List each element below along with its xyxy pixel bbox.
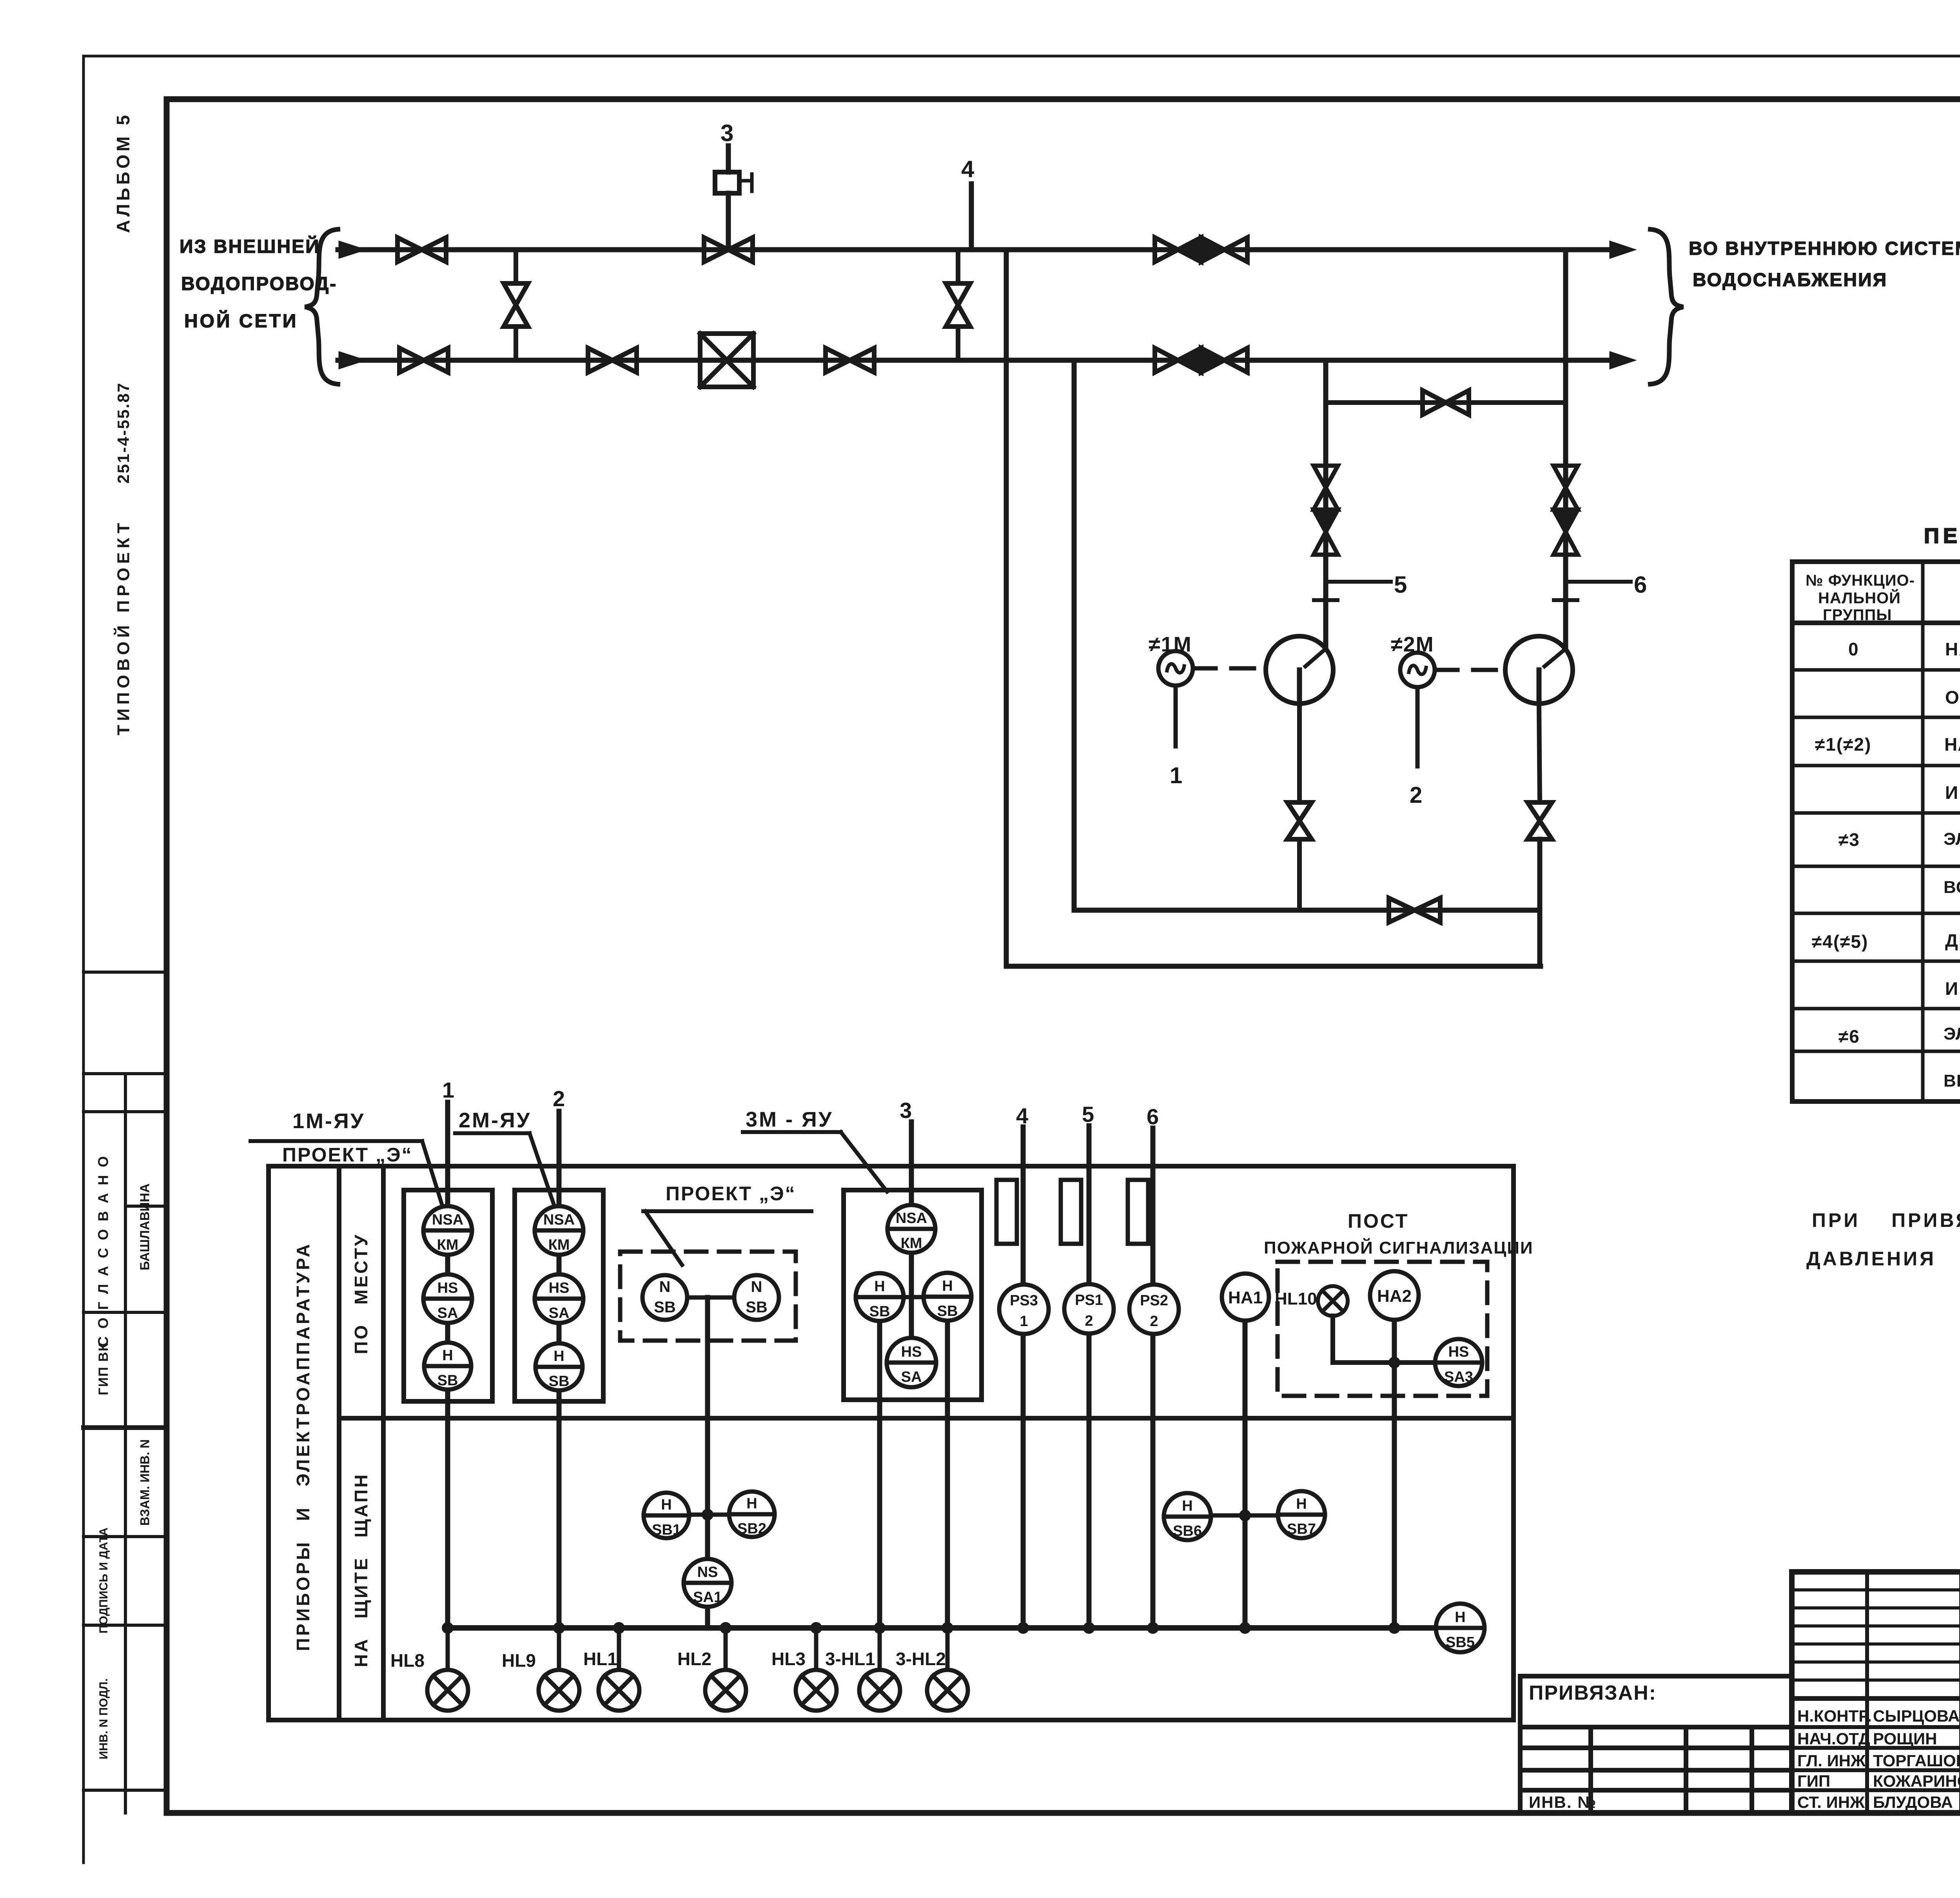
- button H/SB2: [729, 1492, 775, 1537]
- svg-text:1: 1: [1170, 763, 1182, 788]
- suction manifold riser from bottom pipe: [1072, 360, 1077, 910]
- dashed fire post box: [1278, 1262, 1487, 1396]
- valve on middle suction header: [1389, 898, 1440, 922]
- stub 4 on top pipe: [961, 156, 975, 250]
- wire HA1: [1243, 1321, 1248, 1628]
- svg-text:КМ: КМ: [548, 1237, 570, 1253]
- svg-text:≠6: ≠6: [1838, 1026, 1860, 1047]
- connector SB1-SB2: [689, 1513, 729, 1517]
- leader label 2М-ЯУ: [455, 1109, 554, 1206]
- motor of pump 1M: [1149, 633, 1266, 788]
- svg-text:НА2: НА2: [1377, 1287, 1412, 1306]
- svg-text:ИНДИВИДУАЛЬНЫЕ ЦЕПИ: ИНДИВИДУАЛЬНЫЕ ЦЕПИ: [1945, 978, 1960, 999]
- svg-text:1: 1: [1020, 1313, 1028, 1330]
- button N/SB left: [642, 1275, 687, 1320]
- svg-text:HS: HS: [1448, 1344, 1469, 1360]
- label Пост пожарной сигнализации: [1264, 1210, 1534, 1257]
- svg-text:С О Г Л А С О В А Н О: С О Г Л А С О В А Н О: [95, 1154, 111, 1347]
- water meter: [700, 334, 753, 387]
- switch NS/SA1: [684, 1559, 731, 1607]
- svg-text:Н: Н: [1455, 1609, 1465, 1626]
- svg-text:ПРИВЯЗАН:: ПРИВЯЗАН:: [1529, 1682, 1657, 1704]
- svg-text:ЭЛЕКТРОЗАДВИЖКА 6М НА КАНАЛ: ЭЛЕКТРОЗАДВИЖКА 6М НА КАНАЛИЗАЦИОННОМ: [1944, 1024, 1960, 1043]
- svg-text:3-HL2: 3-HL2: [896, 1649, 946, 1669]
- svg-text:PS1: PS1: [1075, 1292, 1103, 1308]
- table grid: [1792, 562, 1960, 1101]
- electro valve 3M on top pipe: [704, 120, 753, 262]
- svg-text:ВОДОПРОВОД-: ВОДОПРОВОД-: [181, 274, 337, 294]
- motor of pump 2M: [1391, 633, 1505, 808]
- title block label rows: [1792, 1698, 1960, 1790]
- group 2M cabinet: [515, 1190, 603, 1401]
- svg-text:ОБЩИЕ ЦЕПИ: ОБЩИЕ ЦЕПИ: [1945, 687, 1960, 708]
- instrument HS/SA pump1: [423, 1274, 472, 1323]
- lamp HL1: [583, 1628, 639, 1711]
- svg-text:3М - ЯУ: 3М - ЯУ: [746, 1108, 833, 1131]
- button H/SB 3M right: [924, 1273, 971, 1321]
- suction header bottom: [1006, 964, 1541, 969]
- group 3M cabinet: [844, 1190, 982, 1400]
- svg-text:ГИП ВК: ГИП ВК: [96, 1343, 111, 1395]
- svg-text:SB: SB: [746, 1299, 768, 1316]
- svg-text:HL1: HL1: [583, 1649, 617, 1669]
- svg-text:SB: SB: [869, 1303, 890, 1320]
- svg-text:2: 2: [1085, 1313, 1093, 1329]
- title block thin rows: [1792, 1590, 1960, 1680]
- svg-text:≠2М: ≠2М: [1391, 633, 1434, 656]
- svg-text:Н: Н: [942, 1278, 953, 1294]
- wire line 6: [1147, 1104, 1159, 1628]
- svg-text:SA: SA: [901, 1369, 922, 1385]
- svg-text:5: 5: [1394, 572, 1407, 598]
- pump 2M discharge riser: [1554, 250, 1647, 649]
- svg-text:3: 3: [900, 1098, 912, 1123]
- svg-text:SB: SB: [654, 1299, 676, 1316]
- svg-text:ВОДОСНАБЖЕНИЯ: ВОДОСНАБЖЕНИЯ: [1693, 270, 1887, 290]
- svg-text:ИЗ ВНЕШНЕЙ: ИЗ ВНЕШНЕЙ: [180, 236, 320, 257]
- instrument HS/SA pump2: [535, 1274, 583, 1323]
- terminal strip 6: [1128, 1180, 1148, 1244]
- svg-text:Н: Н: [554, 1348, 564, 1365]
- svg-text:ГРУППЫ: ГРУППЫ: [1823, 606, 1892, 624]
- svg-text:1: 1: [442, 1078, 454, 1102]
- instrument HS/SA 3M: [887, 1338, 936, 1387]
- svg-text:NSA: NSA: [896, 1210, 927, 1227]
- svg-text:НАЧ.ОТД: НАЧ.ОТД: [1797, 1729, 1870, 1748]
- svg-text:ПО МЕСТУ: ПО МЕСТУ: [351, 1233, 371, 1354]
- svg-text:НАЛЬНОЙ: НАЛЬНОЙ: [1818, 589, 1901, 607]
- svg-text:Н: Н: [1296, 1496, 1307, 1512]
- wire from H/SB 3M left: [877, 1320, 882, 1628]
- svg-text:ГИП: ГИП: [1797, 1772, 1830, 1790]
- svg-text:ДАВЛЕНИЯ ДЛЯ ПРИБОРА PS1,: ДАВЛЕНИЯ ДЛЯ ПРИБОРА PS1, PS2, PS3.: [1806, 1248, 1960, 1270]
- svg-text:Н.КОНТР.: Н.КОНТР.: [1797, 1707, 1872, 1725]
- instrument NSA/KM pump2: [535, 1206, 583, 1255]
- leader label 3М-ЯУ: [743, 1108, 887, 1192]
- svg-text:SB7: SB7: [1287, 1521, 1316, 1537]
- svg-text:Н: Н: [661, 1497, 671, 1513]
- button H/SB5: [1436, 1604, 1485, 1652]
- svg-text:3-HL1: 3-HL1: [825, 1649, 875, 1669]
- svg-text:КМ: КМ: [437, 1237, 459, 1253]
- cross valve between pipes left: [504, 250, 528, 360]
- pump 2M circle: [1505, 636, 1573, 704]
- svg-text:ПРОЕКТ „Э“: ПРОЕКТ „Э“: [282, 1144, 413, 1166]
- lamp 3-HL1: [825, 1628, 900, 1711]
- pump 1M suction with valve: [1287, 704, 1312, 910]
- svg-text:ВЫПУСКЕ ИЗ ПОДВАЛА. ИНДИВИДУ: ВЫПУСКЕ ИЗ ПОДВАЛА. ИНДИВИДУАЛЬНЫЕ ЦЕПИ: [1944, 1071, 1960, 1091]
- connector between H/SB of 3M: [899, 1295, 924, 1299]
- svg-text:НА1: НА1: [1228, 1288, 1263, 1307]
- title block signers: [1797, 1707, 1960, 1811]
- bus node dots: [442, 1622, 1400, 1634]
- right brace: [1650, 229, 1683, 384]
- svg-text:HL10: HL10: [1275, 1289, 1317, 1308]
- pump 1M discharge check+gate valves: [1314, 466, 1338, 555]
- svg-text:ПРИ ПРИВЯЗКЕ ПРОЕКТА ПРОСТА: ПРИ ПРИВЯЗКЕ ПРОЕКТА ПРОСТАВИТЬ ВЕЛИЧИНУ: [1812, 1209, 1960, 1231]
- wire line 2: [553, 1086, 565, 1628]
- svg-text:НАСОСЫ ПРОТИВОПОЖАРНЫЕ: НАСОСЫ ПРОТИВОПОЖАРНЫЕ: [1945, 639, 1960, 659]
- svg-text:0: 0: [1848, 639, 1859, 659]
- svg-text:№ ФУНКЦИО-: № ФУНКЦИО-: [1806, 572, 1915, 589]
- svg-text:2: 2: [553, 1086, 565, 1111]
- svg-text:ИНВ. N ПОДЛ.: ИНВ. N ПОДЛ.: [97, 1678, 110, 1760]
- svg-text:ПЕРЕЧЕНЬ ФУНКЦИОНАЛЬНЫХ ГРУП: ПЕРЕЧЕНЬ ФУНКЦИОНАЛЬНЫХ ГРУПП: [1924, 524, 1960, 548]
- svg-text:КОЖАРИНОВА: КОЖАРИНОВА: [1873, 1772, 1960, 1790]
- terminal strip 4: [996, 1180, 1017, 1244]
- svg-text:1М-ЯУ: 1М-ЯУ: [292, 1109, 365, 1133]
- pump 2M discharge check+gate valves: [1553, 466, 1578, 555]
- svg-text:НА ЩИТЕ ЩАПН: НА ЩИТЕ ЩАПН: [351, 1473, 371, 1668]
- wire line 3: [900, 1098, 912, 1363]
- title block columns left: [1867, 1572, 1960, 1813]
- svg-text:СТ. ИНЖ.: СТ. ИНЖ.: [1797, 1793, 1869, 1811]
- svg-text:4: 4: [961, 156, 975, 182]
- twin gate valve on bottom pipe: [1155, 348, 1247, 372]
- svg-text:ТИПОВОЙ ПРОЕКТ: ТИПОВОЙ ПРОЕКТ: [113, 519, 133, 735]
- label: Из внешней водопроводной сети: [180, 236, 337, 332]
- terminal strip 5: [1061, 1180, 1081, 1244]
- svg-text:АЛЬБОМ 5: АЛЬБОМ 5: [113, 112, 133, 233]
- svg-text:HL3: HL3: [771, 1649, 806, 1669]
- svg-text:Н: Н: [1182, 1498, 1192, 1514]
- svg-text:HL8: HL8: [390, 1650, 425, 1671]
- valve V2 on bottom pipe: [399, 348, 448, 372]
- valve V1 on top pipe: [397, 238, 446, 262]
- common bus: [448, 1625, 1436, 1631]
- node dot HA2/SA3: [1388, 1357, 1400, 1368]
- button H/SB1: [644, 1493, 689, 1538]
- svg-text:HL2: HL2: [677, 1649, 711, 1669]
- svg-text:ПОЖАРНОЙ СИГНАЛИЗАЦИИ: ПОЖАРНОЙ СИГНАЛИЗАЦИИ: [1264, 1238, 1534, 1257]
- svg-text:≠1(≠2): ≠1(≠2): [1815, 734, 1871, 755]
- svg-text:БЛУДОВА: БЛУДОВА: [1873, 1793, 1953, 1811]
- cross valve between pipes right: [946, 250, 970, 360]
- svg-text:ПОДПИСЬ И ДАТА: ПОДПИСЬ И ДАТА: [97, 1528, 110, 1633]
- svg-text:ВОДОМЕРНОГО УЗЛА. ИНДИВИДУАЛ: ВОДОМЕРНОГО УЗЛА. ИНДИВИДУАЛЬНЫЕ ЦЕПИ: [1944, 878, 1960, 897]
- lamp HL3: [771, 1628, 837, 1711]
- suction header middle: [1074, 908, 1540, 913]
- svg-text:5: 5: [1082, 1102, 1094, 1127]
- wire HA2: [1392, 1320, 1397, 1628]
- horn HA1: [1222, 1274, 1269, 1321]
- instrument H/SB pump2: [535, 1343, 583, 1390]
- svg-text:6: 6: [1634, 572, 1647, 598]
- instrument NSA/KM 3M: [887, 1205, 935, 1253]
- valve V3 on bottom pipe: [588, 348, 637, 372]
- switch HS/SA3: [1435, 1339, 1482, 1386]
- svg-text:≠3: ≠3: [1838, 829, 1860, 850]
- svg-text:SA1: SA1: [693, 1589, 722, 1606]
- svg-text:HS: HS: [901, 1344, 922, 1360]
- discharge bypass line: [1326, 390, 1566, 415]
- svg-text:ГЛ. ИНЖ.: ГЛ. ИНЖ.: [1797, 1751, 1870, 1770]
- svg-text:SB5: SB5: [1446, 1634, 1475, 1651]
- left brace: [305, 229, 338, 384]
- pipe: bottom main line: [338, 352, 1634, 368]
- svg-text:PS3: PS3: [1010, 1292, 1038, 1309]
- svg-text:ТОРГАШОВ: ТОРГАШОВ: [1873, 1751, 1960, 1770]
- svg-text:≠1М: ≠1М: [1149, 633, 1192, 656]
- pump 2M suction with valve: [1528, 704, 1552, 839]
- svg-text:6: 6: [1147, 1104, 1159, 1129]
- instrument H/SB pump1: [424, 1343, 471, 1390]
- svg-text:N: N: [751, 1278, 762, 1296]
- pump 1M discharge riser: [1314, 360, 1407, 649]
- svg-text:БАШЛАВИНА: БАШЛАВИНА: [138, 1183, 152, 1270]
- svg-text:НАСОСЫ ПРОТИВОПОЖАРНЫЕ 1М: НАСОСЫ ПРОТИВОПОЖАРНЫЕ 1М (2М): [1944, 734, 1960, 755]
- svg-text:SA: SA: [437, 1305, 458, 1321]
- button H/SB 3M left: [856, 1273, 904, 1321]
- node dot SB1/SB2: [702, 1509, 713, 1521]
- wire line 1: [442, 1078, 454, 1628]
- button N/SB right: [734, 1275, 779, 1320]
- svg-text:ИНДИВИДУАЛЬНЫЕ ЦЕПИ: ИНДИВИДУАЛЬНЫЕ ЦЕПИ: [1945, 782, 1960, 803]
- twin gate valve on top pipe: [1155, 238, 1247, 262]
- svg-text:2М-ЯУ: 2М-ЯУ: [459, 1109, 531, 1132]
- svg-text:PS2: PS2: [1140, 1292, 1168, 1309]
- svg-text:СЫРЦОВА: СЫРЦОВА: [1873, 1707, 1960, 1725]
- svg-text:ЭЛЕКТРОЗАДВИЖКА 3М НА ОБВОД: ЭЛЕКТРОЗАДВИЖКА 3М НА ОБВОДНОЙ ЛИНИИ: [1944, 829, 1960, 849]
- svg-text:ИНВ. №: ИНВ. №: [1529, 1793, 1597, 1811]
- svg-text:ВЗАМ. ИНВ. N: ВЗАМ. ИНВ. N: [138, 1439, 152, 1526]
- svg-text:HL9: HL9: [502, 1650, 536, 1671]
- wire from H/SB 3M right: [945, 1319, 950, 1628]
- svg-text:НОЙ СЕТИ: НОЙ СЕТИ: [184, 310, 298, 332]
- svg-text:SB1: SB1: [652, 1522, 681, 1538]
- pipe: top main line: [338, 242, 1634, 258]
- connector SB6-SB7: [1211, 1513, 1278, 1518]
- svg-text:SA3: SA3: [1444, 1369, 1473, 1385]
- svg-text:Н: Н: [442, 1347, 453, 1364]
- lamp HL9: [502, 1628, 579, 1711]
- button H/SB6: [1164, 1493, 1211, 1540]
- lamp HL10: [1275, 1286, 1348, 1316]
- svg-text:HS: HS: [549, 1280, 570, 1296]
- svg-text:3: 3: [720, 120, 733, 146]
- pump 1M circle: [1266, 636, 1333, 704]
- svg-text:2: 2: [1410, 782, 1422, 808]
- valve V4 on bottom pipe: [826, 348, 874, 372]
- pressure switch PS1: [1064, 1284, 1114, 1334]
- svg-text:SB: SB: [937, 1303, 958, 1319]
- horn HA2: [1370, 1271, 1419, 1320]
- wire line 4: [1016, 1103, 1028, 1628]
- lamp HL2: [677, 1628, 746, 1711]
- svg-text:N: N: [659, 1278, 671, 1296]
- pump2 suction drop: [1537, 839, 1543, 966]
- lamp HL8: [390, 1628, 468, 1711]
- svg-text:SB: SB: [437, 1372, 458, 1389]
- svg-text:ДРЕНАЖНЫЙ НАСОС 4М (5М): ДРЕНАЖНЫЙ НАСОС 4М (5М): [1945, 930, 1960, 951]
- lamp 3-HL2: [896, 1628, 968, 1711]
- diagram box: [269, 1166, 1514, 1720]
- svg-text:SB2: SB2: [737, 1521, 766, 1537]
- pressure switch PS2: [1129, 1285, 1179, 1334]
- svg-text:SB6: SB6: [1173, 1523, 1202, 1539]
- pressure switch PS3: [999, 1285, 1049, 1334]
- button H/SB7: [1278, 1491, 1325, 1538]
- svg-text:NSA: NSA: [432, 1212, 463, 1228]
- svg-text:≠4(≠5): ≠4(≠5): [1812, 931, 1868, 952]
- table header texts: [1806, 572, 1960, 624]
- suction manifold riser from top pipe: [1004, 250, 1009, 966]
- leader label 1М-ЯУ / проект Э: [250, 1109, 443, 1207]
- label: Во внутреннюю систему водоснабжения: [1689, 238, 1960, 290]
- table rows text: [1812, 639, 1960, 1091]
- wire line 5: [1082, 1102, 1094, 1628]
- svg-text:251-4-55.87: 251-4-55.87: [114, 382, 132, 484]
- svg-text:Н: Н: [874, 1278, 885, 1295]
- svg-text:SB: SB: [549, 1373, 570, 1390]
- node dot HA1/SB6: [1239, 1510, 1251, 1521]
- svg-text:ВО ВНУТРЕННЮЮ СИСТЕМУ: ВО ВНУТРЕННЮЮ СИСТЕМУ: [1689, 238, 1960, 259]
- connector between N/SB buttons: [687, 1296, 734, 1300]
- group 1M cabinet: [404, 1190, 492, 1401]
- leader label проект Э (dashed box): [643, 1183, 811, 1265]
- svg-text:ПОСТ: ПОСТ: [1348, 1210, 1409, 1232]
- svg-text:NS: NS: [697, 1564, 718, 1580]
- svg-text:ПРИБОРЫ И ЭЛЕКТРОАППАРАТУРА: ПРИБОРЫ И ЭЛЕКТРОАППАРАТУРА: [293, 1242, 313, 1651]
- svg-text:ПРОЕКТ „Э“: ПРОЕКТ „Э“: [666, 1183, 796, 1205]
- left margin stamp column: [83, 972, 167, 1813]
- dashed panel box: [620, 1252, 796, 1341]
- svg-text:Н: Н: [746, 1495, 757, 1512]
- wire from SB buttons chain: [705, 1297, 710, 1628]
- svg-text:2: 2: [1150, 1313, 1158, 1330]
- instrument NSA/KM pump1: [423, 1206, 472, 1255]
- svg-text:HS: HS: [437, 1280, 458, 1296]
- wire HL10 to SA3 node: [1333, 1316, 1435, 1363]
- привязан box: [1520, 1676, 1792, 1813]
- title block frame: [1792, 1572, 1960, 1813]
- note text: [1806, 1209, 1960, 1270]
- svg-text:КМ: КМ: [901, 1235, 922, 1252]
- svg-text:NSA: NSA: [543, 1212, 575, 1228]
- svg-text:SA: SA: [549, 1305, 570, 1321]
- svg-text:РОЩИН: РОЩИН: [1873, 1729, 1937, 1748]
